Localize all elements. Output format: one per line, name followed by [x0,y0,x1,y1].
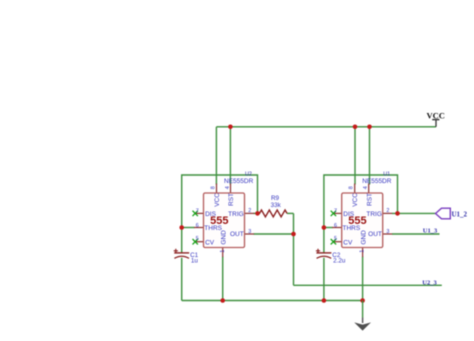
wire R9 right lead to corner [287,212,294,214]
IC U1 NE555DR body [342,193,383,248]
U1 pin 7 DIS stub [333,212,342,214]
svg-text:CV: CV [205,240,215,247]
svg-text:2: 2 [386,208,389,214]
svg-text:TRIG: TRIG [366,211,382,218]
port U1_2 [436,208,451,219]
wire U1 TRIG-THRS loop [324,175,398,253]
U1 pin 2 TRIG stub [383,212,393,214]
svg-text:NE555DR: NE555DR [362,178,392,185]
U2 pin 1 GND stub [222,248,224,258]
IC U2 NE555DR body [204,193,245,248]
svg-text:GND: GND [220,230,227,245]
U2 pin 5 CV stub [195,241,204,243]
junction on VCC rail at U2 pin4 [228,125,233,130]
U1 CV no-connect X [331,239,336,244]
resistor R9 [260,210,288,217]
wire U1 THRS tap [324,227,333,229]
svg-text:5: 5 [196,236,199,242]
wire U2 pin4 drop [229,127,231,185]
wire C1 bottom to ground rail [181,258,183,301]
svg-text:33k: 33k [271,202,282,209]
ground symbol [362,318,364,324]
wire U2 TRIG to R9 [254,212,261,214]
svg-text:U1: U1 [383,171,390,177]
wire net U2_3 [294,284,442,286]
svg-text:RST: RST [366,193,373,206]
U1 pin 6 THRS stub [332,227,342,229]
capacitor C2 plus sign [316,249,320,253]
svg-text:3: 3 [386,229,389,235]
svg-text:555: 555 [210,215,228,227]
svg-text:NE555DR: NE555DR [224,178,254,185]
svg-text:7: 7 [334,209,337,215]
capacitor C2 top plate [316,252,331,254]
U2 pin 4 stub [230,184,232,194]
U1 pin 4 stub [368,184,370,194]
svg-text:7: 7 [196,209,199,215]
junction U2 TRIG node [255,211,260,216]
svg-text:6: 6 [196,223,199,229]
capacitor C1 curved plate [174,256,189,258]
U1 pin 3 OUT stub [383,233,393,235]
wire to ground symbol [362,301,364,318]
svg-text:6: 6 [334,223,337,229]
svg-text:CV: CV [343,240,353,247]
svg-text:4: 4 [225,186,231,189]
svg-text:5: 5 [334,236,337,242]
svg-text:OUT: OUT [230,231,244,238]
wire R9 down through OUT junction [293,213,295,285]
svg-text:GND: GND [360,230,367,245]
wire U2 OUT [254,233,294,235]
capacitor C1 top plate [174,252,189,254]
svg-text:1u: 1u [191,258,199,265]
svg-text:U2: U2 [245,171,252,177]
svg-text:8: 8 [210,186,216,189]
svg-text:RST: RST [228,193,235,206]
wire U1 TRIG to port U1_2 [392,212,436,214]
U2 pin 6 THRS stub [194,227,204,229]
svg-text:3: 3 [248,229,251,235]
U2 pin 8 stub [216,184,218,194]
svg-text:U1_3: U1_3 [423,227,438,234]
wire U1 pin4 drop [369,127,371,185]
wire U2 TRIG-THRS loop [182,175,258,253]
U1 pin 1 GND stub [362,248,364,258]
U2 CV no-connect X [193,239,198,244]
wire U2 pin8 drop [215,127,217,185]
junction U2 THRS node [179,225,184,230]
U1 pin 8 stub [354,184,356,194]
wire net U1_3 [392,233,440,235]
svg-text:OUT: OUT [368,231,382,238]
svg-text:VCC: VCC [214,193,221,207]
wire ground rail horizontal [182,300,363,302]
wire U2 THRS tap [182,227,195,229]
junction on VCC rail at U1 pin4 [367,125,372,130]
wire U2 GND drop [222,257,224,301]
junction U1 THRS node [322,225,327,230]
U2 pin 3 OUT stub [245,233,255,235]
svg-text:555: 555 [348,215,366,227]
junction ground rail at U1 GND [360,298,365,303]
capacitor C2 curved plate [317,256,332,258]
svg-text:VCC: VCC [426,110,444,120]
svg-text:1: 1 [360,250,366,253]
svg-text:2.2u: 2.2u [333,258,346,265]
svg-text:U1_2: U1_2 [452,210,468,218]
U2 pin 7 DIS stub [195,212,204,214]
svg-text:4: 4 [363,186,369,189]
VCC power flag [435,120,437,127]
wire VCC rail horizontal [216,126,436,128]
U2 pin 2 TRIG stub [245,212,255,214]
junction on VCC rail at U1 pin8 [353,125,358,130]
wire U1 pin8 drop [354,127,356,185]
U1 pin 5 CV stub [333,241,342,243]
U1 DIS no-connect X [331,211,336,216]
junction U1 TRIG node [395,211,400,216]
wire U1 GND drop [362,257,364,301]
capacitor C1 plus sign [174,249,178,253]
svg-text:2: 2 [248,208,251,214]
svg-text:U2_3: U2_3 [422,279,437,286]
svg-text:R9: R9 [271,195,280,202]
svg-text:1: 1 [220,250,226,253]
junction U2 OUT node [291,232,296,237]
junction ground rail at C2 [322,298,327,303]
junction ground rail at U2 GND [220,298,225,303]
svg-text:VCC: VCC [352,193,359,207]
wire C2 bottom to ground rail [323,258,325,301]
svg-text:8: 8 [349,186,355,189]
svg-text:TRIG: TRIG [228,211,244,218]
U2 DIS no-connect X [193,211,198,216]
